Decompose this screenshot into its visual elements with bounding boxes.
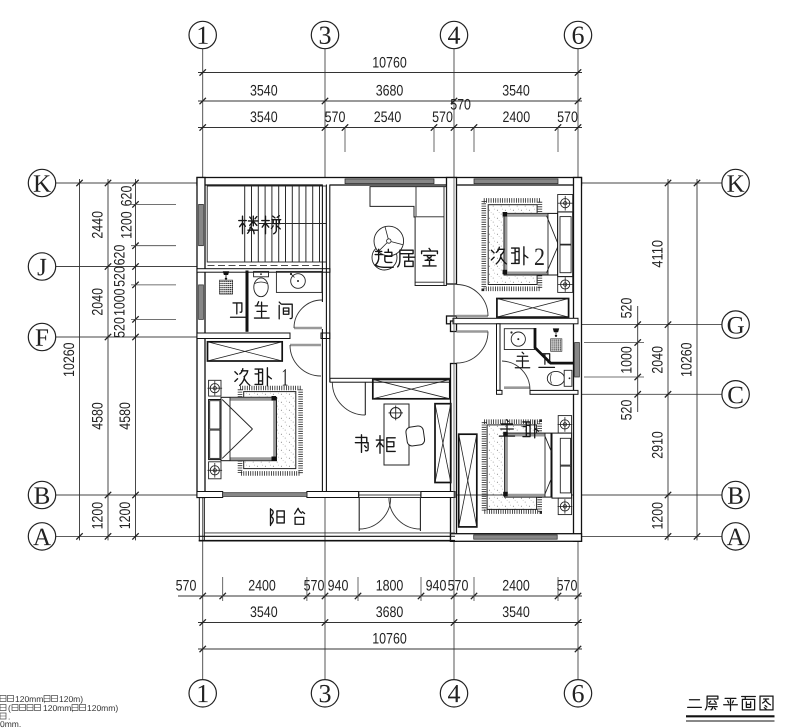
room label 起居室 [375,249,393,267]
svg-text:3: 3 [318,679,331,708]
door bed2 arc [457,285,489,317]
grid line A [55,535,722,537]
grid line G [582,324,723,326]
mbath shower head [553,328,559,332]
svg-text:K: K [33,171,51,198]
grid line B [55,494,722,496]
svg-text:520: 520 [619,400,636,421]
svg-text:620: 620 [119,186,136,207]
axis bubble 1 top [189,21,216,48]
bed2 blanket chevron [547,216,559,245]
bath toilet bowl [254,278,268,297]
master carpet inner + stipple [487,425,536,510]
svg-text:120mm,: 120mm, [15,694,46,704]
svg-text:3: 3 [318,21,331,50]
study wardrobe right xbox [435,404,451,483]
bed2 nightstand north [558,195,573,212]
svg-text:4580: 4580 [90,402,107,430]
grid line 3 [324,48,326,679]
grid line C [582,393,723,395]
svg-text:2040: 2040 [90,288,107,316]
axis bubble A right [722,523,749,550]
window bed2 top 2400 [474,179,558,184]
bed1 wardrobe top [208,342,283,361]
svg-text:J: J [37,254,47,281]
door master arc [457,332,489,364]
extension stubs bottom [222,577,224,601]
wall B right segment [421,492,455,498]
bed2 corner marks [503,212,508,217]
master nightstand north [558,416,571,434]
bath toilet tank [254,271,269,276]
room label 次卧1 [235,369,250,386]
master mattress gray edging [505,434,545,437]
axis bubble B left [28,481,55,508]
wall J stair/bath [197,269,330,273]
svg-text:G: G [727,312,745,339]
door bed1 arc [290,345,321,376]
bath sink counter [276,271,322,292]
axis bubble K left [28,169,55,196]
grid line J [55,266,197,268]
balcony south wall [199,535,455,537]
stair mid rail [259,223,327,225]
svg-text:1200: 1200 [119,211,136,239]
svg-text:520: 520 [619,298,636,319]
svg-text:620: 620 [112,245,129,266]
sofa outline [370,187,446,286]
svg-text:3680: 3680 [376,82,404,99]
master pillows [560,438,570,465]
axis bubble 6 bottom [564,680,591,707]
axis bubble 3 top [311,21,338,48]
door masterbath leaf [504,386,530,389]
bed1 blanket chevron [222,400,252,430]
door bath (hall->bath) leaf [294,327,322,330]
master blanket chevron [545,436,557,465]
room label 卫生间 [231,303,247,317]
bed1 pillows [210,401,220,429]
balcony door jambs [358,492,360,498]
svg-text:3680: 3680 [376,604,404,621]
dim col left outer 10260 [79,179,81,540]
svg-text:1: 1 [281,364,288,391]
wall master west above door [451,321,457,332]
study wardrobe top xbox [373,380,450,399]
wall vertical x325 lines [321,185,323,303]
svg-text:3540: 3540 [250,109,278,126]
dim row top 10760 [198,72,582,74]
window bed1 south 2400 [223,493,307,497]
bed2 headboard [558,212,573,277]
door study leaf [364,382,366,415]
bed1 mattress gray edging [230,398,276,401]
svg-text:570: 570 [325,109,346,126]
axis bubble 1 bottom [189,680,216,707]
door bath arc [294,300,322,328]
bath partition black [246,271,249,332]
svg-text:570: 570 [557,109,578,126]
axis bubble G right [722,311,749,338]
svg-text:570: 570 [557,577,578,594]
window living room top 2540 [345,179,434,184]
bath sink basin [291,274,306,289]
svg-text:2400: 2400 [248,577,276,594]
svg-text:2440: 2440 [90,211,107,239]
wall C masterbath south right [530,390,578,394]
wall F bath/bed1 right part [321,333,330,339]
axis bubble A left [28,523,55,550]
svg-text:0mm.: 0mm. [0,719,21,728]
balcony west wall [198,498,200,541]
corner notes [0,696,6,702]
wall vertical x325 white core [322,179,329,382]
bath shower grid [220,280,233,294]
wall exterior top [197,178,582,186]
grid line 6 [577,48,579,679]
master nightstand south [558,498,571,514]
study chair [405,425,425,446]
door master leaf [457,330,489,333]
dim row top 3540/570/2540/570/570/2400/570 [198,127,582,129]
bed2 carpet fringe [484,200,540,288]
dim row top 3540/3680/3540 [198,100,582,102]
svg-text:C: C [727,382,744,409]
svg-text:10260: 10260 [61,342,78,377]
balcony french door left leaf [358,498,360,532]
grid line F [55,336,197,338]
extension stubs left [131,203,176,205]
mbath shower grid [551,339,562,352]
dim col right outer 10260 [696,179,698,540]
axis bubble B right [722,481,749,508]
wall C masterbath south left [497,390,503,394]
grid line 4 overlay through walls [453,178,455,534]
wall bed2 west upper [447,178,457,285]
svg-text:1200: 1200 [90,502,107,530]
master corner marks [503,432,508,437]
axis bubble 3 bottom [311,680,338,707]
bed2 nightstand south [558,277,573,293]
svg-text:940: 940 [328,577,349,594]
svg-text:A: A [33,524,51,551]
svg-text:120mm): 120mm) [87,703,118,713]
svg-text:1000: 1000 [619,346,636,374]
grid line K [55,182,722,184]
dim col left middle [107,179,109,540]
bed2 wardrobe [497,299,569,318]
mbath toilet bowl [547,371,564,385]
wall study top [330,378,455,382]
svg-text:570: 570 [448,577,469,594]
axis bubble 6 top [564,21,591,48]
bed1 carpet fringe [240,388,301,473]
axis bubble K right [722,169,749,196]
svg-text:A: A [727,524,745,551]
study desk [384,404,409,465]
axis bubble F left [28,323,55,350]
svg-text:1000: 1000 [112,288,129,316]
door bed1 leaf [290,344,321,347]
mbath toilet tank [564,370,572,386]
dim col right inner 520/1000/520 [637,306,639,412]
balcony door head lines across opening [359,491,421,493]
svg-text:3540: 3540 [250,82,278,99]
bath shower head [223,271,229,275]
master headboard [552,433,572,498]
dim col left inner [135,179,137,540]
balcony inner rail line [204,532,455,534]
svg-text:6: 6 [571,21,584,50]
svg-text:2: 2 [534,244,545,271]
balcony french door right arc [389,498,421,530]
mbath sink counter [504,329,534,350]
svg-text:1200: 1200 [650,502,667,530]
svg-text:2040: 2040 [650,346,667,374]
svg-text:520: 520 [112,317,129,338]
svg-text:6: 6 [571,679,584,708]
dim col right middle [667,179,669,540]
wall bed2 west lower [447,316,457,324]
svg-text:520: 520 [112,266,129,287]
svg-text:3540: 3540 [502,82,530,99]
mbath shower stall wall [535,328,574,363]
svg-text:F: F [35,325,49,352]
wall master west below door [451,364,457,542]
door study arc [332,382,365,415]
title underline [686,715,775,717]
title 二层平面图 [688,700,702,708]
wall G bed2/masterbath [453,318,578,324]
window bath west 1000 [199,285,204,320]
room label 次卧2 [491,247,506,264]
sofa divisions [415,187,417,217]
door masterbath arc [502,361,530,390]
master mattress [505,433,551,497]
axis bubble J left [28,253,55,280]
bed1 nightstand north [209,380,221,396]
svg-text:2910: 2910 [650,431,667,459]
grid line 4 [453,48,455,679]
svg-text:4: 4 [447,679,460,708]
wall exterior right [574,178,582,542]
dim row bottom 10760 [198,648,582,650]
bed1 headboard [209,400,221,460]
bed2 mattress [504,213,558,275]
grid line 1 [202,48,204,679]
wall B left segment [197,492,223,498]
svg-text:B: B [727,483,744,510]
svg-text:K: K [727,171,745,198]
grid line J dashed [197,265,330,267]
svg-text:10760: 10760 [372,54,407,71]
svg-text:4580: 4580 [117,402,134,430]
bed2 mattress gray edging [505,214,548,217]
svg-text:2400: 2400 [502,577,530,594]
svg-text:1800: 1800 [376,577,404,594]
svg-text:1200: 1200 [117,502,134,530]
wall exterior left [197,178,205,498]
bed1 nightstand south [209,462,221,479]
window master south 2400 [474,535,558,539]
svg-text:3540: 3540 [250,604,278,621]
master wardrobe [459,434,477,527]
balcony french door left arc [359,498,391,530]
room label 主卫 [515,352,529,368]
wall F bath/bed1 left part [197,333,290,339]
window masterbath east 1000 [575,343,580,378]
wall masterbath west [497,324,501,391]
svg-text:570: 570 [450,96,471,113]
bed2 carpet inner + stipple [488,205,537,285]
coffee table small circle [372,245,397,270]
wall master south [451,534,582,542]
window stair west 1200 [199,204,204,245]
dim row bottom 3540/3680/3540 [198,622,582,624]
svg-text:940: 940 [426,577,447,594]
svg-text:B: B [34,483,51,510]
svg-text:570: 570 [176,577,197,594]
stair treads [244,186,246,262]
svg-text:4: 4 [447,21,460,50]
axis bubble 4 top [440,21,467,48]
room label 楼梯 [239,216,258,234]
svg-text:1: 1 [196,21,209,50]
room label 阳台 [271,509,285,526]
svg-text:10260: 10260 [679,342,696,377]
svg-text:3540: 3540 [502,604,530,621]
room label 主卧 [499,420,514,436]
bed1 mattress [221,397,277,460]
wall B middle segment [307,492,359,498]
bed1 corner marks [272,396,277,401]
door bed2 leaf [457,315,489,318]
master carpet fringe [484,422,540,512]
room label 书柜 [355,435,368,453]
axis bubble C right [722,381,749,408]
bed1 carpet inner + stipple [244,392,296,469]
svg-text:2540: 2540 [374,109,402,126]
dim row bottom inner [178,595,582,597]
axis bubble 4 bottom [440,680,467,707]
bed2 pillows [560,217,571,245]
balcony french door right leaf [419,498,421,532]
svg-text:1: 1 [196,679,209,708]
extension stubs top [344,128,346,153]
svg-text:2400: 2400 [502,109,530,126]
mbath sink basin [511,332,525,346]
extension stubs right [584,342,644,344]
svg-text:120mm,: 120mm, [43,703,74,713]
stair boundary [207,186,326,262]
svg-text:10760: 10760 [372,630,407,647]
coffee table segmented circle [374,226,404,256]
study desk lamp [390,408,401,419]
svg-text:4110: 4110 [650,240,667,268]
